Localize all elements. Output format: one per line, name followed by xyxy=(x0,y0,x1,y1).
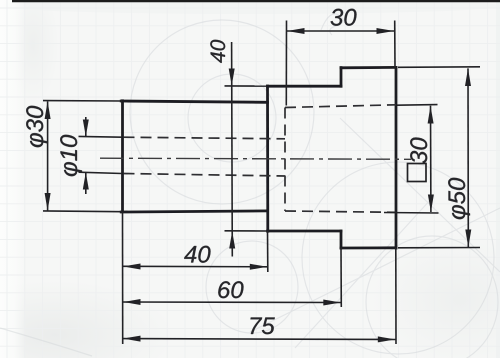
faint diagonal line 2 xyxy=(340,118,500,272)
dim line 60 bottom xyxy=(123,301,341,304)
label 40 (vertical dimension) xyxy=(210,40,225,63)
center line xyxy=(100,158,411,159)
arrow 40 vertical down (outside, above) xyxy=(229,69,235,86)
arrow phi10 down (outside, above) xyxy=(83,120,89,137)
ext line 30 top left xyxy=(285,21,287,106)
dim line 75 bottom xyxy=(123,338,396,341)
shoulder phi30/phi40 (full visible edge) xyxy=(266,86,269,231)
right edge scan shade xyxy=(496,0,500,358)
ext line phi50 bottom xyxy=(398,247,480,249)
label phi30 xyxy=(26,106,48,147)
bottom edge phi50 section xyxy=(341,246,396,249)
ext line phi50 top xyxy=(398,66,480,69)
arrow 40 bottom right xyxy=(250,264,267,270)
ext line phi10 bottom xyxy=(79,172,123,173)
left face xyxy=(121,101,124,212)
faint circle bottom right large xyxy=(302,162,494,354)
faint arc bottom left xyxy=(0,328,92,356)
top scan border xyxy=(12,0,500,2)
dim line phi30 xyxy=(47,102,49,211)
paper tone washes xyxy=(0,280,175,358)
label phi50 xyxy=(448,178,470,219)
label 60 (bottom dimension) xyxy=(218,281,243,298)
step phi40/phi50 top xyxy=(340,68,343,87)
bottom edge phi30 section xyxy=(121,211,267,212)
dim line 40 bottom xyxy=(123,265,268,268)
ext line left face down xyxy=(122,212,124,344)
phi10 hole bottom hidden line xyxy=(124,174,286,177)
ext line right face down xyxy=(395,248,397,344)
faint circle upper middle xyxy=(130,20,314,204)
ext line phi30 top xyxy=(43,100,122,102)
arrow 30 top right xyxy=(377,28,395,34)
ext line step1 down xyxy=(267,231,269,272)
top edge phi30 section xyxy=(121,101,267,102)
label 40 (bottom dimension) xyxy=(184,246,210,263)
arrow 75 bottom left xyxy=(123,336,141,342)
ext line 40 vertical bottom xyxy=(225,230,267,232)
arrow 30 top left xyxy=(287,28,305,34)
dim line sq30 xyxy=(430,106,432,212)
arrow phi10 up (outside, below) xyxy=(83,172,89,189)
phi10 hole top hidden line xyxy=(124,137,286,139)
ext line 30 top right xyxy=(394,21,396,68)
label 30 (top dimension) xyxy=(331,9,357,26)
square hole left hidden line xyxy=(284,108,286,212)
arrow 40 vertical up (outside, below) xyxy=(229,231,235,248)
faint inner circle upper middle xyxy=(188,74,276,162)
arrow phi30 up xyxy=(45,101,51,119)
label 75 (bottom dimension) xyxy=(251,318,275,335)
label 30 of square-hole dimension xyxy=(410,138,427,164)
faint diagonal line 1 xyxy=(295,198,432,348)
faint circle lower middle xyxy=(206,241,298,333)
ext line sq30 top xyxy=(397,104,438,107)
arrow 60 bottom right xyxy=(323,300,341,306)
faint squiggle near top 30 label xyxy=(321,14,343,35)
square hole bottom hidden line xyxy=(285,211,396,212)
ext line phi10 top xyxy=(79,135,123,138)
square symbol of square-hole dimension xyxy=(408,164,427,182)
square hole top hidden line xyxy=(285,105,396,108)
top edge phi50 section xyxy=(341,66,396,69)
arrow sq30 up xyxy=(428,106,434,124)
arrow phi50 up xyxy=(465,68,471,86)
faint diagonal line 3 xyxy=(250,208,500,332)
arrow 60 bottom left xyxy=(123,299,141,305)
ext line 40 vertical top xyxy=(225,85,267,87)
arrow 40 bottom left xyxy=(123,264,141,270)
ext line phi30 bottom xyxy=(43,210,122,213)
right face xyxy=(395,67,398,248)
arrow sq30 down xyxy=(428,195,434,213)
arrow 75 bottom right xyxy=(378,336,396,342)
dim line 30 top xyxy=(287,30,394,32)
arrow phi30 down xyxy=(45,193,51,211)
top edge phi40 section xyxy=(268,85,342,88)
faint circle bottom right small xyxy=(366,236,498,358)
ext line step2 down xyxy=(340,248,342,307)
dim line phi10 lower segment xyxy=(85,172,87,194)
dim line phi10 upper segment xyxy=(85,117,87,136)
dim line phi50 xyxy=(467,68,469,247)
ext line sq30 bottom xyxy=(384,212,439,215)
arrow phi50 down xyxy=(465,230,471,248)
bottom edge phi40 section xyxy=(268,230,342,233)
step phi40/phi50 bottom xyxy=(340,231,343,248)
dim line 40 vertical xyxy=(231,42,234,257)
label phi10 xyxy=(60,135,82,176)
